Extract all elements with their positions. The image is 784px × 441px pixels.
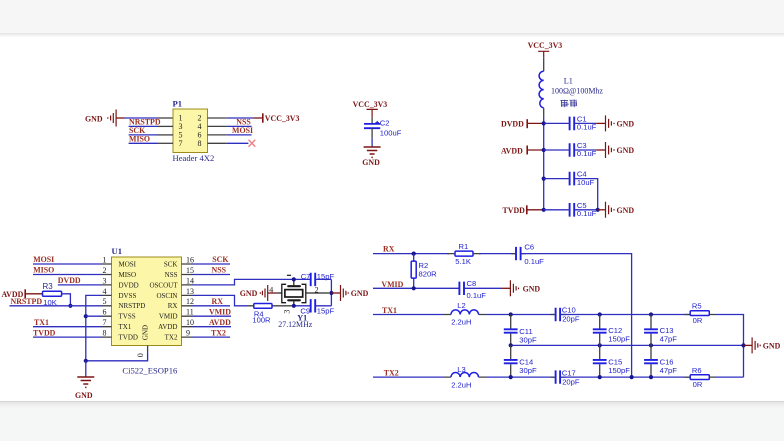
node AVDD rail junction [542, 148, 546, 152]
svg-text:TX1: TX1 [34, 318, 49, 327]
resistor R5 [685, 302, 716, 325]
node crystal top junction [292, 277, 296, 281]
wire OSCOUT pin14 to crystal top rail [193, 279, 311, 285]
svg-text:2: 2 [315, 285, 319, 294]
svg-text:GND: GND [75, 391, 93, 400]
svg-text:1: 1 [103, 255, 107, 264]
svg-text:TX2: TX2 [211, 328, 226, 337]
inductor L1 [539, 71, 603, 108]
svg-text:DVDD: DVDD [119, 281, 139, 289]
wire RX pin12 [193, 305, 231, 307]
node RX/R2 junction [412, 252, 416, 256]
svg-text:L1: L1 [564, 76, 573, 85]
svg-text:NRSTPD: NRSTPD [11, 297, 43, 306]
svg-text:DVDD: DVDD [501, 120, 524, 129]
wire C17 to R6 [560, 376, 690, 378]
node C15 bottom junction [598, 375, 602, 379]
svg-text:C10: C10 [562, 306, 576, 315]
svg-text:R2: R2 [419, 261, 429, 270]
wire TX2 pin9 [193, 336, 231, 338]
capacitor C1 [570, 114, 597, 131]
resistor R3 [43, 282, 62, 307]
svg-text:2: 2 [103, 266, 107, 275]
node C13 top junction [649, 312, 653, 316]
power port DVDD [501, 119, 544, 129]
svg-text:8: 8 [103, 329, 107, 338]
capacitor C5 [570, 201, 597, 218]
node TVSS junction [84, 314, 88, 318]
wire R1 to C6 [479, 253, 515, 255]
svg-text:R1: R1 [459, 242, 469, 251]
capacitor C7 [301, 272, 335, 286]
wire R6 to right rail [715, 376, 744, 378]
wire R3 to NRSTPD [62, 294, 71, 306]
capacitor C6 [511, 242, 544, 265]
svg-text:0.1uF: 0.1uF [524, 257, 544, 266]
svg-text:5.1K: 5.1K [455, 257, 471, 266]
wire GND stem [85, 361, 87, 377]
power port VCC_3V3 (above C2) [353, 100, 388, 117]
pin numbers U1 left [103, 255, 107, 337]
svg-text:MISO: MISO [33, 266, 54, 275]
wire NRSTPD to P1 pin3 [129, 125, 157, 127]
svg-text:3: 3 [103, 276, 107, 285]
power port VCC_3V3 (at P1) [263, 113, 300, 123]
svg-text:TX1: TX1 [119, 323, 132, 331]
node crystal bottom junction [292, 304, 296, 308]
svg-text:TX2: TX2 [165, 334, 178, 342]
svg-text:RX: RX [168, 302, 178, 310]
node C12 bottom junction [598, 343, 602, 347]
svg-text:12: 12 [186, 297, 194, 306]
inductor L2 [443, 301, 487, 326]
ground GND (below U1) [75, 377, 94, 400]
svg-text:27.12MHz: 27.12MHz [278, 320, 312, 329]
svg-text:GND: GND [763, 342, 781, 351]
capacitor C12 [593, 315, 630, 346]
svg-text:NSS: NSS [165, 271, 178, 279]
svg-text:SCK: SCK [212, 255, 229, 264]
svg-text:100Ω@100Mhz: 100Ω@100Mhz [551, 86, 603, 95]
capacitor C11 [504, 315, 537, 346]
svg-text:GND: GND [617, 146, 635, 155]
svg-text:Header 4X2: Header 4X2 [173, 153, 215, 163]
wire C4 to C5 node [574, 179, 598, 210]
wire NSS pin15 [193, 274, 231, 276]
capacitor C2 [364, 119, 402, 138]
svg-text:9: 9 [186, 329, 190, 338]
svg-text:GND: GND [617, 120, 635, 129]
wire P1 pin2 to VCC_3V3 [208, 117, 227, 119]
wire C8 to GND [464, 287, 502, 289]
wire VCC_3V3 to C2 [371, 117, 373, 124]
svg-text:6: 6 [103, 308, 107, 317]
node C4 rail junction [542, 177, 546, 181]
wire TVDD to C5 [544, 209, 569, 211]
pin numbers U1 right [186, 255, 194, 337]
node GND drop junction [84, 359, 88, 363]
svg-text:100uF: 100uF [380, 129, 402, 138]
svg-text:AVDD: AVDD [209, 318, 231, 327]
svg-text:GND: GND [351, 289, 369, 298]
wire C1 to GND [574, 122, 596, 124]
svg-text:C7: C7 [301, 272, 311, 281]
svg-text:15pF: 15pF [317, 307, 335, 316]
wire MISO pin2 [33, 274, 102, 276]
svg-text:RX: RX [383, 245, 395, 254]
wire power rail (vertical) [543, 115, 545, 209]
svg-text:C6: C6 [524, 242, 534, 251]
wire pin1 of P1 to GND [116, 117, 124, 119]
wire C10 to R5 [560, 314, 690, 316]
svg-text:OSCOUT: OSCOUT [149, 281, 178, 289]
node C16 bottom junction [649, 375, 653, 379]
svg-text:GND: GND [362, 158, 380, 167]
wire C7 to right rail [315, 278, 331, 280]
svg-text:SCK: SCK [164, 260, 178, 268]
svg-text:VMID: VMID [209, 307, 231, 316]
capacitor C14 [504, 345, 537, 377]
power port AVDD [501, 146, 544, 156]
svg-text:TVDD: TVDD [119, 334, 138, 342]
capacitor C9 [300, 299, 334, 316]
power port VCC_3V3 (above L1) [528, 41, 563, 57]
svg-text:TVSS: TVSS [119, 313, 136, 321]
svg-text:C8: C8 [467, 279, 477, 288]
svg-text:TX1: TX1 [382, 306, 397, 315]
wire C5 to GND [574, 209, 597, 211]
svg-text:P1: P1 [173, 99, 183, 109]
svg-text:GND: GND [617, 206, 635, 215]
svg-text:5: 5 [103, 297, 107, 306]
wire MOSI pin1 [33, 263, 102, 265]
svg-text:AVDD: AVDD [501, 146, 523, 155]
capacitor C4 [570, 170, 595, 187]
svg-text:47pF: 47pF [660, 334, 678, 343]
inductor L3 [443, 365, 487, 390]
resistor R1 [447, 242, 481, 266]
wire DVDD pin3 [58, 284, 102, 286]
svg-text:2.2uH: 2.2uH [451, 380, 471, 389]
node DVDD rail junction [542, 121, 546, 125]
svg-text:20pF: 20pF [562, 377, 580, 386]
wire R5 to right rail [715, 315, 744, 378]
ground GND (C5) [606, 202, 635, 218]
svg-text:20pF: 20pF [562, 315, 580, 324]
svg-text:14: 14 [186, 276, 194, 285]
wire AVDD pin10 [193, 326, 232, 328]
wire NRSTPD pin5 [10, 305, 103, 307]
power port AVDD (at R3) [2, 289, 43, 299]
svg-text:VCC_3V3: VCC_3V3 [528, 41, 563, 50]
wire P1 pin8 (no connect) [208, 142, 227, 144]
node R3/NRSTPD junction [68, 304, 72, 308]
svg-text:MOSI: MOSI [119, 260, 137, 268]
svg-text:0.1uF: 0.1uF [467, 291, 487, 300]
wire TX2 row left [373, 376, 443, 378]
wire SCK pin16 [193, 263, 231, 265]
svg-text:16: 16 [186, 255, 194, 264]
svg-text:C9: C9 [300, 307, 310, 316]
svg-text:47pF: 47pF [660, 366, 678, 375]
svg-text:0R: 0R [693, 380, 703, 389]
wire AVDD to C3 [544, 149, 569, 151]
svg-text:VMID: VMID [381, 280, 403, 289]
svg-text:GND: GND [85, 114, 103, 123]
svg-text:GND: GND [141, 325, 149, 340]
wire P1 pin4 to NSS [208, 125, 227, 127]
svg-text:3: 3 [283, 310, 292, 314]
svg-text:MOSI: MOSI [232, 126, 253, 135]
svg-text:2.2uH: 2.2uH [451, 318, 471, 327]
ground GND (crystal right) [331, 285, 368, 301]
pin stub U1 bottom GND [147, 346, 149, 353]
node C12 top junction [598, 312, 602, 316]
svg-text:0: 0 [136, 353, 145, 357]
header P1 [173, 99, 215, 163]
svg-text:10: 10 [186, 318, 194, 327]
svg-text:MOSI: MOSI [33, 255, 54, 264]
wire R4 to crystal bottom rail [292, 305, 310, 307]
svg-text:VCC_3V3: VCC_3V3 [265, 114, 300, 123]
ground GND (C1) [606, 115, 635, 131]
svg-text:NSS: NSS [212, 266, 227, 275]
power port TVDD [503, 205, 544, 215]
wire C6 to TX2 row [521, 254, 632, 378]
wire DVSS pin4 to rail [86, 295, 102, 360]
svg-text:C17: C17 [562, 368, 576, 377]
resistor R6 [685, 366, 716, 389]
wire middle row [511, 344, 744, 346]
ground GND (crystal pin4) [240, 285, 277, 301]
wire P1 pin6 to MOSI [208, 134, 227, 136]
capacitor C3 [570, 141, 597, 158]
svg-text:VMID: VMID [159, 313, 178, 321]
ground GND (TX network) [744, 337, 781, 353]
wire TX1 pin7 [33, 326, 102, 328]
svg-text:MISO: MISO [129, 135, 150, 144]
node C4/C5 junction [596, 208, 600, 212]
capacitor C10 [551, 306, 580, 324]
wire crystal right rail [330, 279, 332, 305]
node C14 bottom junction [509, 375, 513, 379]
svg-text:4: 4 [269, 285, 273, 294]
capacitor C16 [644, 345, 677, 377]
wire TVSS pin6 [86, 315, 102, 317]
pin stubs U1 left [102, 264, 112, 337]
svg-text:11: 11 [186, 308, 194, 317]
svg-text:R5: R5 [692, 302, 702, 311]
svg-text:VCC_3V3: VCC_3V3 [353, 100, 388, 109]
svg-text:4: 4 [103, 287, 107, 296]
svg-text:820R: 820R [419, 270, 438, 279]
pin stubs U1 right [182, 264, 193, 337]
ground GND (C3) [606, 142, 635, 158]
node VMID/R2 junction [412, 286, 416, 290]
wire bottom GND run [86, 352, 148, 360]
svg-text:GND: GND [523, 285, 541, 294]
svg-text:30pF: 30pF [519, 366, 537, 375]
node C11 bottom junction [509, 343, 513, 347]
svg-text:AVDD: AVDD [158, 323, 177, 331]
value label cizhu (magnetic bead) [560, 100, 577, 108]
capacitor C13 [644, 315, 677, 346]
svg-text:TX2: TX2 [384, 368, 399, 377]
wire L3 to C17 [487, 376, 555, 378]
wire C2 to GND [371, 128, 373, 138]
svg-text:8: 8 [198, 139, 202, 148]
svg-text:L3: L3 [457, 365, 465, 374]
wire RX row [373, 253, 449, 255]
svg-text:100R: 100R [252, 315, 271, 324]
svg-text:C2: C2 [380, 119, 390, 128]
wire rail to C4 [544, 178, 569, 180]
wire VCC_3V3 to L1 [543, 57, 545, 71]
svg-text:TVDD: TVDD [33, 328, 56, 337]
ground GND (C8) [510, 280, 540, 296]
wire OSCIN pin13 to crystal bottom rail [193, 295, 249, 305]
svg-text:GND: GND [240, 289, 258, 298]
svg-text:DVSS: DVSS [119, 292, 137, 300]
wire MISO to P1 pin7 [129, 142, 157, 144]
wire L2 to C10 [487, 314, 555, 316]
resistor R4 [248, 304, 292, 325]
svg-text:15: 15 [186, 266, 194, 275]
svg-text:150pF: 150pF [608, 334, 630, 343]
wire TVDD pin8 [33, 336, 102, 338]
capacitor C8 [459, 279, 486, 300]
svg-text:R3: R3 [43, 282, 54, 291]
node C6 line junction [630, 375, 634, 379]
svg-text:OSCIN: OSCIN [156, 292, 177, 300]
ground GND (left of P1) [85, 110, 116, 127]
capacitor C17 [551, 368, 580, 386]
svg-text:7: 7 [103, 318, 107, 327]
svg-text:NRSTPD: NRSTPD [119, 302, 146, 310]
ground GND (below C2) [362, 147, 380, 167]
wire TX1 row left [373, 314, 443, 316]
wire VMID pin11 [193, 315, 232, 317]
crystal Y1 27.12MHz [269, 275, 329, 329]
node C13 bottom junction [649, 343, 653, 347]
node C11 top junction [509, 312, 513, 316]
svg-text:L2: L2 [457, 301, 465, 310]
no-ERC cross on P1 pin8 [249, 140, 256, 147]
svg-text:SCK: SCK [129, 126, 146, 135]
op-amp U1 chip body Ci522_ESOP16 [112, 246, 182, 375]
svg-text:Ci522_ESOP16: Ci522_ESOP16 [122, 365, 178, 375]
svg-text:TVDD: TVDD [503, 206, 526, 215]
wire C3 to GND [574, 149, 596, 151]
wire C9 to right rail [315, 305, 331, 307]
capacitor C15 [593, 345, 630, 377]
node middle GND junction [741, 343, 745, 347]
svg-text:30pF: 30pF [519, 335, 537, 344]
svg-text:DVDD: DVDD [58, 276, 81, 285]
svg-text:R6: R6 [692, 366, 702, 375]
svg-text:0R: 0R [693, 316, 703, 325]
wire DVDD to C1 [544, 122, 569, 124]
resistor R2 [411, 254, 437, 289]
svg-text:150pF: 150pF [608, 366, 630, 375]
wire VMID row [373, 287, 459, 289]
svg-text:13: 13 [186, 287, 194, 296]
node crystal pin2 junction [329, 291, 333, 295]
svg-text:7: 7 [179, 139, 183, 148]
node TVDD rail junction [542, 208, 546, 212]
svg-text:RX: RX [212, 297, 224, 306]
wire SCK to P1 pin5 [129, 134, 157, 136]
wire L1 to rail [543, 108, 545, 116]
svg-text:MISO: MISO [119, 271, 137, 279]
svg-text:U1: U1 [112, 246, 123, 256]
